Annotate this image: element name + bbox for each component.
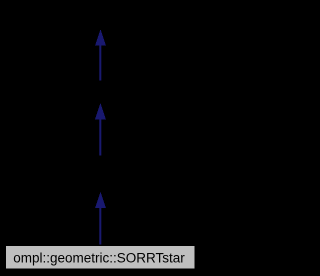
svg-text:ompl::geometric::SORRTstar: ompl::geometric::SORRTstar — [13, 251, 185, 266]
